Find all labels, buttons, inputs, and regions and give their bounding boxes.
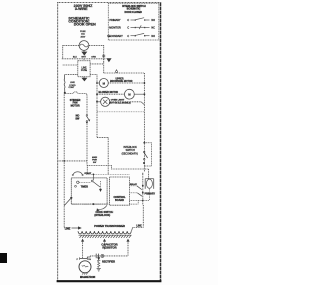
wire motors right bus [143, 73, 145, 172]
svg-text:LINE: LINE [70, 82, 75, 84]
svg-text:(INTERLOCK): (INTERLOCK) [94, 214, 110, 217]
connector arrow below fuse box [83, 76, 85, 79]
border frame top [58, 2, 162, 4]
wire primary bottom [148, 189, 150, 201]
svg-text:BLOWER MOTOR: BLOWER MOTOR [99, 92, 119, 94]
svg-text:LINE: LINE [81, 67, 87, 69]
svg-text:MOTOR: MOTOR [71, 104, 80, 107]
secondary tap arrow 1 [81, 239, 84, 242]
fan motor M1 [96, 82, 98, 84]
wire center bus to timer [86, 165, 88, 174]
hv diode [98, 256, 100, 261]
hv rail [90, 255, 128, 257]
core line [79, 234, 132, 236]
wire wavy drop line1 [63, 75, 66, 93]
wire top bus right segment [89, 44, 104, 46]
svg-text:DOOR CLOSED: DOOR CLOSED [125, 12, 143, 14]
magnetron circle [79, 261, 91, 273]
svg-text:C: C [127, 19, 129, 22]
svg-text:NO: NO [151, 35, 155, 38]
svg-text:INTERLOCK: INTERLOCK [124, 147, 138, 149]
transformer secondary coil [78, 231, 131, 234]
svg-text:FUSE: FUSE [81, 70, 88, 72]
svg-text:NC: NC [151, 27, 155, 30]
wire center bus upper [86, 96, 88, 115]
interlock switch legend box [108, 3, 159, 40]
svg-text:DOOR OPEN: DOOR OPEN [74, 23, 96, 27]
svg-text:TIMER: TIMER [81, 186, 88, 188]
wire motors bottom [97, 111, 144, 113]
svg-text:INTERLOCK SWITCH: INTERLOCK SWITCH [122, 6, 146, 8]
svg-text:BLK: BLK [73, 57, 78, 59]
wire down to transformer primary [148, 169, 150, 179]
svg-text:FUSE: FUSE [80, 31, 86, 33]
svg-text:SWITCH: SWITCH [126, 150, 136, 152]
svg-text:3-WIRE: 3-WIRE [75, 7, 88, 11]
svg-text:PWR: PWR [92, 159, 97, 161]
wire motors left bus [96, 75, 98, 138]
wire rail to magnetron terminal [87, 256, 90, 259]
wire corner to coil [133, 227, 144, 229]
timer aux contact [75, 185, 77, 187]
svg-text:SECONDARY: SECONDARY [107, 35, 123, 38]
wire left bus drop [62, 45, 64, 58]
jumper arc above timer [73, 172, 83, 175]
wire relay top [142, 172, 144, 174]
wire left bus down [63, 94, 65, 228]
wire out fuse box right upper [90, 63, 104, 65]
border frame bottom [57, 279, 162, 283]
node junction left bus [64, 92, 66, 94]
relay contact row 1 [129, 185, 136, 187]
line fuse box [78, 61, 90, 77]
svg-text:OVEN LIGHT: OVEN LIGHT [111, 100, 125, 102]
svg-text:NO: NO [151, 19, 155, 22]
relay wire row 3 [129, 199, 142, 201]
wire mid left [59, 160, 87, 162]
svg-text:CONT: CONT [68, 87, 74, 89]
border frame right [159, 3, 162, 282]
timer node dot [70, 197, 72, 199]
timer switch blade [91, 180, 93, 182]
svg-text:BOARD: BOARD [115, 199, 124, 202]
wire control bottom extension [129, 203, 138, 205]
magnetron top plate [80, 258, 88, 260]
arc below control board [98, 205, 107, 209]
connector ticks [102, 54, 105, 56]
node on timer bottom [92, 203, 94, 205]
interlock secondary switch [143, 142, 145, 144]
bleed resistor zigzag [98, 261, 100, 268]
border frame left [56, 2, 58, 281]
svg-text:GRN: GRN [91, 57, 96, 59]
svg-text:POWER TRANSFORMER: POWER TRANSFORMER [94, 224, 125, 228]
wire fuse box lower left [65, 74, 78, 76]
wire motors top [104, 72, 145, 74]
noise filter bus [62, 58, 106, 60]
wire center bus lower [86, 123, 88, 166]
wire diagonal to left bus [64, 198, 71, 206]
svg-text:WHT: WHT [81, 57, 86, 59]
ground symbol [97, 268, 101, 270]
timer box [71, 178, 107, 204]
wire bus to fuse box top [83, 59, 85, 61]
wire horizontal with hop [65, 92, 87, 96]
wire top of timer boxes [86, 173, 129, 175]
relay bus vertical [142, 174, 144, 205]
transformer core hatching [80, 235, 132, 238]
scan artifact black bar bottom-left [0, 253, 7, 263]
wire mid right jog [87, 165, 148, 169]
transformer primary winding [144, 179, 146, 189]
control board box [110, 177, 130, 205]
svg-text:PRIMARY: PRIMARY [109, 19, 120, 22]
svg-text:RECTIFIER: RECTIFIER [102, 261, 115, 264]
magnetron chassis hatch [82, 273, 88, 275]
wire bottom bus of boxes [71, 203, 109, 205]
svg-text:MONITOR: MONITOR [109, 27, 121, 30]
svg-text:C: C [127, 35, 129, 38]
svg-text:UPPER: UPPER [116, 78, 124, 80]
fuse F1 circle [79, 41, 89, 51]
wire fuse box lower right [90, 74, 97, 76]
svg-text:250V: 250V [81, 36, 86, 38]
hv capacitor symbol [95, 254, 97, 259]
connector arrow right pair [106, 58, 111, 62]
svg-text:SW: SW [75, 117, 80, 120]
wire lamp bus corner [97, 137, 108, 139]
wire top bus left segment [63, 44, 79, 46]
secondary tap arrow 2 [103, 239, 106, 242]
svg-text:C: C [127, 27, 129, 30]
timer contact circle [77, 181, 79, 183]
oven lamp L1 [97, 101, 101, 103]
svg-text:RESISTOR: RESISTOR [102, 246, 116, 250]
relay contact row 2 [129, 192, 137, 194]
wire relay to transformer [142, 205, 144, 228]
secondary tap arrow 3 [126, 239, 129, 242]
timer switch drop arrow [100, 181, 102, 189]
wire right drop to connector [103, 45, 105, 61]
wire into fuse box left [63, 64, 78, 66]
connector arrow below fuse [83, 50, 85, 51]
interlock switch primary symbol [86, 114, 88, 116]
svg-text:BROWNING MOTOR: BROWNING MOTOR [110, 81, 133, 83]
connector circle on top wire [116, 71, 118, 73]
svg-text:SW: SW [93, 162, 96, 164]
